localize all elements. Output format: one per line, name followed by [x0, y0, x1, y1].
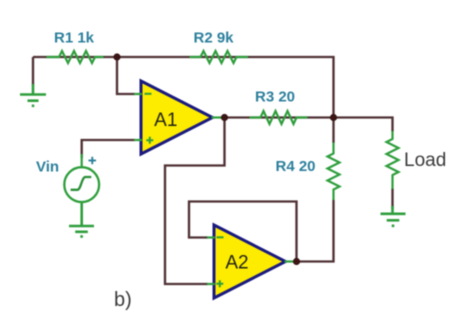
op-amp A1	[134, 81, 221, 154]
Vin plus polarity mark	[89, 157, 97, 164]
svg-text:R2 9k: R2 9k	[194, 30, 235, 47]
resistor R3 20	[250, 111, 308, 124]
resistor R2 9k	[190, 51, 249, 63]
svg-text:Load: Load	[404, 150, 446, 171]
source Vin	[64, 154, 99, 202]
wire A1 output down and around to A2 non-inverting input	[165, 118, 225, 285]
wire Load bottom to ground	[391, 189, 393, 210]
wire node to A1 inverting input	[117, 57, 135, 94]
wire top rail from left ground through R1, node, R2 to right drop	[33, 57, 334, 118]
node junction at R3/R4/Load	[330, 114, 337, 121]
svg-text:R1 1k: R1 1k	[54, 30, 95, 47]
svg-text:R4 20: R4 20	[276, 158, 316, 175]
ground left	[20, 84, 46, 106]
resistor R1 1k	[47, 51, 104, 63]
resistor R4 20 vertical	[328, 143, 340, 201]
svg-text:A2: A2	[225, 253, 248, 274]
wire A2 output right and up to R4 bottom	[297, 200, 334, 262]
wire Vin to A1 non-inverting input	[82, 140, 135, 158]
node junction at R1/R2	[113, 53, 120, 60]
node junction at A1 output	[221, 114, 228, 121]
svg-text:Vin: Vin	[36, 159, 59, 176]
wire A2 feedback loop output to inverting input	[189, 202, 297, 262]
svg-text:b): b)	[114, 289, 132, 311]
node junction at A2 output	[293, 258, 300, 265]
wire left ground stem	[32, 57, 34, 85]
svg-text:R3 20: R3 20	[255, 89, 295, 106]
wire junction right to Load top	[334, 118, 393, 132]
op-amp A2	[207, 225, 293, 298]
wire junction down to R4 top	[332, 118, 334, 144]
ground under Load	[381, 206, 406, 226]
resistor Load vertical	[387, 131, 399, 189]
wire A1 output to right junction through R3	[220, 116, 334, 118]
svg-text:A1: A1	[154, 110, 177, 131]
ground under Vin	[69, 202, 94, 237]
